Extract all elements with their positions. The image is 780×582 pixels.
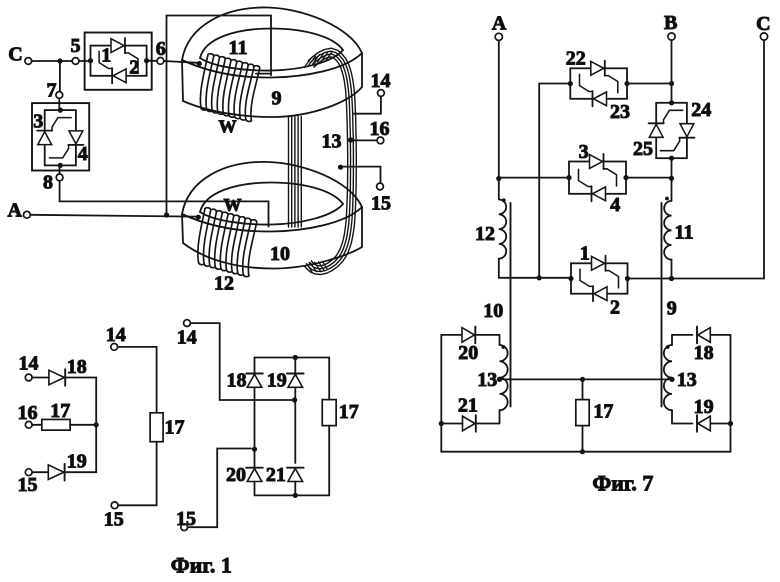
fig7 phase B rail upper: [669, 40, 674, 103]
winding W on toroid 2: [198, 208, 257, 277]
fig7 B rail through 24-25 to winding 11: [669, 158, 674, 201]
fig1b resistor 17: [150, 413, 184, 442]
junction at node 7 branch: [57, 58, 62, 63]
svg-text:21: 21: [458, 395, 478, 417]
fig7 terminal A: [492, 13, 507, 41]
svg-text:9: 9: [272, 88, 282, 110]
fig1c terminal 15: [176, 508, 196, 531]
svg-text:A: A: [492, 13, 507, 35]
svg-text:4: 4: [610, 194, 620, 216]
wire node 5 to box 1-2: [79, 60, 91, 62]
fig1c junction 15 on left rail: [252, 447, 257, 452]
fig7 thyristor pair 22-23: [566, 48, 630, 123]
fig1c diode 20: [246, 468, 263, 482]
svg-text:15: 15: [104, 509, 124, 531]
svg-text:18: 18: [694, 342, 714, 364]
fig1a wire 16 to resistor 17: [32, 424, 42, 426]
fig1a wire diode 18 to junction: [66, 378, 96, 425]
fig1c label 19: [267, 370, 287, 392]
svg-text:B: B: [664, 12, 677, 34]
svg-text:19: 19: [67, 451, 87, 473]
fig7 wire 22-23 left lead down: [537, 84, 571, 281]
svg-text:13: 13: [677, 369, 697, 391]
fig7 bottom rail: [441, 451, 730, 453]
svg-text:17: 17: [165, 417, 185, 439]
svg-text:Фиг. 7: Фиг. 7: [592, 471, 653, 496]
junction of A wire with riser: [164, 212, 169, 217]
svg-text:12: 12: [214, 273, 234, 295]
svg-text:W: W: [224, 195, 242, 215]
fig1c label 18: [227, 370, 247, 392]
terminal C: [8, 44, 31, 66]
label 10 core: [270, 243, 290, 265]
label W bottom winding: [224, 195, 242, 215]
fig1c left rail lower: [254, 449, 256, 468]
svg-text:19: 19: [694, 396, 714, 418]
svg-text:12: 12: [475, 223, 495, 245]
node 5: [71, 35, 81, 64]
svg-text:17: 17: [593, 401, 613, 423]
svg-text:C: C: [8, 44, 22, 66]
svg-text:15: 15: [371, 193, 391, 215]
svg-text:14: 14: [19, 353, 39, 375]
fig1a terminal 16: [18, 402, 38, 428]
fig7 wire 3-4 right lead to B: [626, 177, 672, 179]
label 9 core: [272, 88, 282, 110]
svg-text:1: 1: [580, 243, 590, 265]
fig7 diode 21: [439, 395, 500, 432]
fig7 left return rail: [440, 335, 442, 452]
fig1c terminal 14: [177, 320, 197, 349]
winding 13 right bundle: [305, 48, 357, 274]
fig1b terminal 15: [104, 502, 124, 531]
label W top winding: [219, 117, 237, 137]
fig1a diode 19: [48, 464, 64, 481]
svg-text:17: 17: [339, 401, 359, 423]
svg-text:15: 15: [18, 474, 38, 496]
fig7 core bar 10: [483, 203, 510, 407]
wire box 3-4 to node 8: [59, 165, 61, 174]
wire winding 11 right lead riser rectangle: [167, 16, 272, 216]
wire node 6 to winding 11 lead: [164, 61, 202, 66]
fig1c right rail with resistor 17: [322, 358, 359, 496]
fig1c wire 14 to bridge mid-left: [190, 323, 295, 400]
svg-text:W: W: [219, 117, 237, 137]
fig7 right return rail: [730, 335, 732, 452]
fig7 diode 18: [672, 327, 731, 364]
winding 13 front bundle through cores: [289, 117, 302, 228]
node 8: [43, 172, 63, 194]
svg-text:4: 4: [78, 143, 88, 165]
svg-text:11: 11: [675, 222, 694, 244]
fig7 winding 12: [475, 198, 506, 258]
fig7 terminal B: [664, 12, 677, 40]
fig1c label 20: [226, 464, 246, 486]
fig1c bottom rail: [255, 482, 330, 499]
svg-text:21: 21: [266, 464, 286, 486]
fig1a wire diode 19 to junction: [66, 425, 97, 472]
fig1c wire 15 to bridge: [188, 449, 251, 528]
thyristor pair box U2 (thyristors 3 and 4): [32, 103, 89, 170]
svg-text:8: 8: [43, 172, 53, 194]
svg-text:3: 3: [579, 141, 589, 163]
svg-text:10: 10: [270, 243, 290, 265]
svg-text:24: 24: [691, 99, 711, 121]
svg-text:2: 2: [129, 57, 139, 79]
svg-text:20: 20: [226, 464, 246, 486]
toroidal core 2 (windings 10 and 12): [182, 162, 362, 269]
svg-text:22: 22: [566, 48, 586, 70]
fig7 diode 20: [441, 327, 499, 364]
fig7 phase A rail: [496, 40, 501, 198]
fig7 thyristor pair 1-2: [568, 243, 630, 319]
fig7 terminal C: [756, 13, 770, 40]
fig7 winding 12 bottom wire to box 1-2: [498, 259, 500, 278]
fig1c junction 14 on middle rail: [292, 397, 297, 402]
svg-text:14: 14: [371, 70, 391, 92]
fig7 wire to box 1-2 left: [499, 277, 571, 279]
node 7: [47, 80, 63, 102]
fig7 thyristor pair 3-4: [566, 141, 628, 216]
svg-text:C: C: [756, 13, 770, 35]
fig7 thyristor pair 24-25: [633, 99, 711, 161]
svg-text:14: 14: [106, 324, 126, 346]
svg-text:A: A: [7, 200, 22, 222]
fig7 center tap wire 13-13: [500, 377, 673, 382]
fig7 winding 11 bottom wire: [671, 260, 673, 279]
wire node 5 down to node 7: [59, 61, 61, 92]
svg-text:7: 7: [47, 80, 57, 102]
svg-text:11: 11: [229, 37, 248, 59]
fig1a resistor 17: [42, 400, 70, 430]
caption fig 1: [171, 553, 232, 578]
fig1a label 18: [67, 356, 87, 378]
fig1c diode 18: [246, 374, 263, 388]
svg-text:14: 14: [177, 326, 197, 348]
label 13: [322, 131, 342, 153]
svg-text:16: 16: [370, 118, 390, 140]
label 12 winding: [214, 273, 234, 295]
svg-text:16: 16: [18, 402, 38, 424]
toroidal core 1 (windings 9 and 11): [182, 7, 362, 117]
wire node 7 into box 3-4: [58, 98, 60, 110]
fig1a terminal 14: [19, 353, 39, 381]
fig7 phase C rail: [674, 40, 764, 278]
fig1b wire resistor to 15: [118, 442, 157, 506]
svg-text:5: 5: [71, 35, 81, 57]
fig1b terminal 14: [106, 324, 126, 350]
svg-text:18: 18: [227, 370, 247, 392]
svg-text:23: 23: [610, 101, 630, 123]
fig1c diode 21: [287, 468, 304, 482]
fig7 wire 22-23 right lead to B: [627, 83, 672, 85]
svg-text:10: 10: [483, 300, 503, 322]
fig1a diode 18: [49, 369, 65, 386]
winding 13 bottom turn hatching: [307, 261, 328, 272]
lead 16: [348, 118, 390, 144]
fig1a wire resistor to junction: [70, 422, 99, 427]
svg-text:25: 25: [633, 138, 653, 160]
wire box 1-2 to node 6: [147, 60, 157, 62]
fig1a terminal 15: [18, 469, 38, 496]
fig1a wire 15 to diode 19: [32, 471, 48, 473]
winding W on toroid 1: [200, 54, 259, 122]
fig1c middle rail upper with diode 19: [294, 358, 296, 464]
fig1a wire 14 to diode 18: [32, 377, 49, 379]
fig7 winding 11: [664, 197, 693, 260]
fig7 core bar 9: [662, 203, 677, 407]
fig7 wire box 1-2 right to C: [628, 276, 675, 281]
fig7 diode 19: [672, 396, 733, 432]
label 11 winding: [229, 37, 248, 59]
svg-text:1: 1: [101, 45, 111, 67]
caption fig 7: [592, 471, 653, 496]
fig1c bridge top rail: [255, 355, 330, 360]
svg-text:13: 13: [322, 131, 342, 153]
fig1c label 21: [266, 464, 286, 486]
fig7 wire 3-4 left lead to A: [499, 177, 569, 179]
wire A to winding 12 left lead: [30, 215, 201, 220]
lead 15: [338, 165, 391, 215]
svg-text:Фиг. 1: Фиг. 1: [171, 553, 232, 578]
fig7 winding 13 right: [664, 335, 697, 410]
svg-text:9: 9: [667, 298, 677, 320]
node 6: [156, 38, 166, 64]
winding 13 top turn hatching: [304, 53, 332, 68]
fig7 winding 13 left: [477, 335, 507, 410]
wire node 8 to winding 12 right lead: [60, 181, 269, 227]
svg-text:19: 19: [267, 370, 287, 392]
fig1b wire 14 to resistor 17: [118, 347, 157, 413]
terminal A: [7, 200, 30, 222]
lead 14: [354, 70, 391, 114]
svg-text:3: 3: [33, 111, 43, 133]
wire C to node 5: [32, 60, 72, 62]
fig7 resistor 17: [576, 379, 614, 454]
fig1c left rail upper with diode 18: [254, 358, 256, 450]
svg-text:20: 20: [458, 342, 478, 364]
svg-text:2: 2: [610, 297, 620, 319]
thyristor pair box U1 (thyristors 1 and 2): [85, 33, 152, 90]
svg-text:17: 17: [50, 400, 70, 422]
svg-text:18: 18: [67, 356, 87, 378]
fig1a label 19: [67, 451, 87, 473]
svg-text:13: 13: [477, 369, 497, 391]
fig1c diode 19: [287, 374, 304, 388]
